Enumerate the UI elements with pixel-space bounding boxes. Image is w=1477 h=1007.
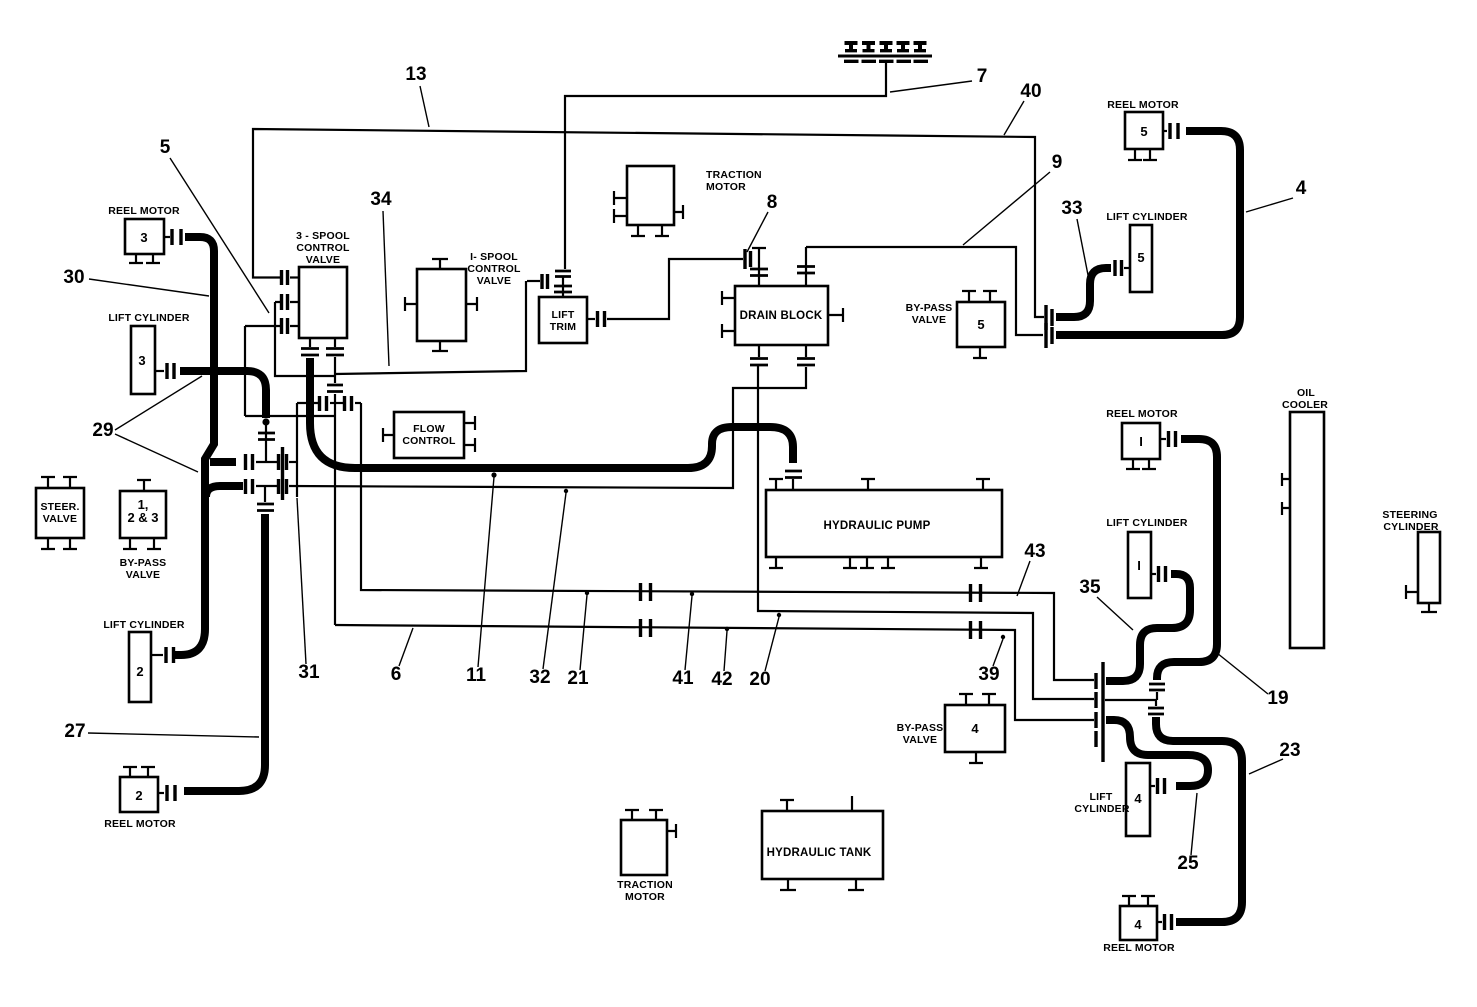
hose lift cylinder 3 to junction bbox=[180, 371, 275, 462]
svg-text:13: 13 bbox=[405, 64, 426, 85]
svg-text:LIFT CYLINDER: LIFT CYLINDER bbox=[1106, 517, 1188, 529]
coupling pair lower bbox=[1046, 323, 1052, 348]
svg-text:4: 4 bbox=[971, 721, 979, 736]
svg-text:2: 2 bbox=[136, 664, 143, 679]
svg-text:TRACTION: TRACTION bbox=[706, 169, 762, 181]
svg-text:9: 9 bbox=[1052, 152, 1063, 173]
svg-text:FLOW: FLOW bbox=[413, 423, 445, 435]
svg-text:19: 19 bbox=[1267, 688, 1288, 709]
svg-text:4: 4 bbox=[1134, 791, 1142, 806]
1-spool control valve bbox=[405, 251, 521, 351]
vent reservoir symbol bbox=[838, 43, 932, 61]
svg-text:32: 32 bbox=[529, 667, 550, 688]
label 40 bbox=[1004, 81, 1042, 135]
svg-text:5: 5 bbox=[1137, 250, 1144, 265]
label 7 bbox=[890, 66, 987, 92]
by-pass valve 5 bbox=[906, 291, 1005, 358]
svg-text:TRIM: TRIM bbox=[550, 321, 577, 333]
label 32 bbox=[529, 489, 568, 688]
label 19 bbox=[1217, 653, 1289, 709]
label 4 bbox=[1246, 178, 1307, 212]
coupling row under valve bbox=[297, 396, 361, 411]
svg-text:REEL MOTOR: REEL MOTOR bbox=[1106, 408, 1178, 420]
oil cooler bbox=[1282, 387, 1328, 648]
wire vent to lift trim bbox=[565, 62, 886, 269]
junction coupling row 1 bbox=[210, 447, 297, 500]
label 31 bbox=[297, 498, 320, 683]
traction motor bottom bbox=[617, 810, 676, 903]
svg-text:LIFT CYLINDER: LIFT CYLINDER bbox=[108, 312, 190, 324]
svg-text:MOTOR: MOTOR bbox=[706, 181, 746, 193]
svg-text:BY-PASS: BY-PASS bbox=[120, 557, 167, 569]
hose reel motor 3 to lift cylinder 2 bbox=[174, 237, 214, 655]
3-spool control valve bbox=[245, 230, 350, 355]
wire drain block to coupling 9 bbox=[806, 247, 1043, 335]
wire 13 long loop bbox=[253, 129, 1044, 317]
wire L1 from row to manifold row A bbox=[361, 403, 1094, 680]
svg-text:2: 2 bbox=[135, 788, 142, 803]
svg-text:41: 41 bbox=[672, 668, 694, 689]
svg-text:BY-PASS: BY-PASS bbox=[897, 722, 944, 734]
label 41 bbox=[672, 592, 694, 689]
label 13 bbox=[405, 64, 429, 127]
svg-text:30: 30 bbox=[63, 267, 84, 288]
label 35 bbox=[1079, 577, 1133, 630]
svg-text:43: 43 bbox=[1024, 541, 1045, 562]
svg-text:STEER.: STEER. bbox=[40, 501, 79, 513]
svg-text:3: 3 bbox=[140, 230, 147, 245]
svg-text:31: 31 bbox=[298, 662, 320, 683]
svg-text:REEL MOTOR: REEL MOTOR bbox=[104, 818, 176, 830]
label 39 bbox=[978, 635, 1005, 685]
row A hose stub bbox=[1106, 677, 1112, 685]
label 30 bbox=[63, 267, 209, 296]
label 8 bbox=[747, 192, 777, 252]
lift cylinder 4 bbox=[1074, 763, 1164, 836]
svg-text:REEL MOTOR: REEL MOTOR bbox=[1107, 99, 1179, 111]
svg-text:HYDRAULIC PUMP: HYDRAULIC PUMP bbox=[824, 520, 931, 532]
svg-text:39: 39 bbox=[978, 664, 999, 685]
svg-text:6: 6 bbox=[391, 664, 402, 685]
hose 4 loop to reel motor 5 bbox=[1056, 131, 1240, 335]
reel motor 4 bbox=[1103, 896, 1175, 954]
hydraulic pump bbox=[766, 479, 1002, 568]
svg-text:CYLINDER: CYLINDER bbox=[1074, 803, 1129, 815]
label 21 bbox=[567, 591, 589, 689]
svg-text:3: 3 bbox=[138, 353, 145, 368]
label 29 bbox=[92, 376, 202, 472]
by-pass valve 1 2 and 3 bbox=[120, 480, 167, 581]
svg-text:2 & 3: 2 & 3 bbox=[127, 510, 158, 525]
svg-text:33: 33 bbox=[1061, 198, 1082, 219]
wires under 3-spool valve bbox=[245, 281, 526, 625]
reel motor 2 bbox=[104, 767, 176, 830]
svg-text:LIFT CYLINDER: LIFT CYLINDER bbox=[103, 619, 185, 631]
svg-text:COOLER: COOLER bbox=[1282, 399, 1328, 411]
hose 19 reel motor 1 to row B bbox=[1105, 439, 1217, 700]
svg-text:STEERING: STEERING bbox=[1382, 509, 1437, 521]
reel motor 3 bbox=[108, 205, 181, 263]
svg-text:40: 40 bbox=[1020, 81, 1041, 102]
hose 33 coupling to lift cylinder 5 bbox=[1056, 268, 1111, 317]
lift cylinder 3 bbox=[108, 312, 190, 394]
svg-text:OIL: OIL bbox=[1297, 387, 1315, 399]
hose 23 row B to reel motor 4 bbox=[1148, 700, 1242, 922]
svg-text:DRAIN BLOCK: DRAIN BLOCK bbox=[740, 310, 823, 322]
label 9 bbox=[963, 152, 1062, 245]
reel motor 1 bbox=[1106, 408, 1178, 469]
svg-text:3 - SPOOL: 3 - SPOOL bbox=[296, 230, 350, 242]
label 25 bbox=[1177, 793, 1199, 874]
svg-text:REEL MOTOR: REEL MOTOR bbox=[1103, 942, 1175, 954]
svg-text:CONTROL: CONTROL bbox=[402, 435, 456, 447]
wire L3 to manifold row C bbox=[335, 619, 1094, 720]
label 23 bbox=[1249, 740, 1301, 774]
lift trim valve bbox=[527, 271, 605, 343]
svg-text:LIFT CYLINDER: LIFT CYLINDER bbox=[1106, 211, 1188, 223]
svg-text:29: 29 bbox=[92, 420, 113, 441]
lift cylinder 1 bbox=[1106, 517, 1188, 598]
node riser x297 bbox=[296, 403, 298, 497]
svg-text:LIFT: LIFT bbox=[552, 309, 575, 321]
drain block bbox=[722, 247, 843, 365]
reel motor 5 bbox=[1107, 99, 1179, 160]
svg-text:HYDRAULIC TANK: HYDRAULIC TANK bbox=[767, 847, 872, 859]
svg-text:VALVE: VALVE bbox=[43, 513, 77, 525]
wire L2 drain to manifold row B bbox=[758, 366, 1094, 699]
svg-text:VALVE: VALVE bbox=[477, 275, 511, 287]
svg-text:35: 35 bbox=[1079, 577, 1101, 598]
label 34 bbox=[370, 189, 392, 366]
svg-text:I- SPOOL: I- SPOOL bbox=[470, 251, 518, 263]
by-pass valve 4 bbox=[897, 694, 1005, 763]
svg-text:REEL MOTOR: REEL MOTOR bbox=[108, 205, 180, 217]
svg-text:25: 25 bbox=[1177, 853, 1199, 874]
svg-text:8: 8 bbox=[767, 192, 778, 213]
main pressure hose valve to pump bbox=[310, 358, 793, 468]
coupling pair upper bbox=[1046, 305, 1052, 330]
svg-text:TRACTION: TRACTION bbox=[617, 879, 673, 891]
svg-text:34: 34 bbox=[370, 189, 392, 210]
hose 25 row C to lift cylinder 4 bbox=[1106, 720, 1208, 786]
svg-text:11: 11 bbox=[466, 665, 487, 686]
label 20 bbox=[749, 613, 781, 690]
steer valve bbox=[36, 477, 84, 549]
svg-text:BY-PASS: BY-PASS bbox=[906, 302, 953, 314]
label 27 bbox=[64, 721, 259, 742]
svg-text:4: 4 bbox=[1296, 178, 1307, 199]
svg-text:I: I bbox=[1137, 558, 1141, 573]
svg-text:4: 4 bbox=[1134, 917, 1142, 932]
svg-text:42: 42 bbox=[711, 669, 732, 690]
svg-text:20: 20 bbox=[749, 669, 770, 690]
lift cylinder 5 bbox=[1106, 211, 1188, 292]
svg-text:MOTOR: MOTOR bbox=[625, 891, 665, 903]
junction coupling row 2 bbox=[206, 479, 287, 497]
svg-text:5: 5 bbox=[160, 137, 171, 158]
svg-text:CONTROL: CONTROL bbox=[296, 242, 350, 254]
svg-text:VALVE: VALVE bbox=[903, 734, 937, 746]
label 33 bbox=[1061, 198, 1088, 275]
wire row2 to drain block bbox=[289, 367, 806, 488]
svg-text:I: I bbox=[1139, 434, 1143, 449]
svg-text:7: 7 bbox=[977, 66, 988, 87]
flow control bbox=[383, 412, 475, 458]
svg-text:5: 5 bbox=[1140, 124, 1147, 139]
steering cylinder bbox=[1382, 509, 1440, 612]
svg-text:VALVE: VALVE bbox=[912, 314, 946, 326]
svg-text:27: 27 bbox=[64, 721, 85, 742]
svg-text:5: 5 bbox=[977, 317, 984, 332]
svg-text:21: 21 bbox=[567, 668, 589, 689]
manifold couplings bbox=[1096, 662, 1103, 762]
wire lift trim to drain block bbox=[607, 249, 751, 319]
label 5 bbox=[160, 137, 269, 313]
svg-text:CONTROL: CONTROL bbox=[467, 263, 521, 275]
label 43 bbox=[1017, 541, 1046, 596]
label 11 bbox=[466, 472, 497, 686]
pump inlet cap bbox=[785, 471, 802, 490]
hydraulic tank bbox=[762, 796, 883, 890]
hose 35 lift cylinder 1 to row A bbox=[1109, 574, 1190, 681]
svg-text:VALVE: VALVE bbox=[306, 254, 340, 266]
hose 27 junction to reel motor 2 bbox=[184, 486, 274, 791]
traction motor top bbox=[614, 166, 762, 236]
label 6 bbox=[391, 628, 413, 685]
lift cylinder 2 bbox=[103, 619, 185, 702]
svg-text:23: 23 bbox=[1279, 740, 1300, 761]
svg-text:LIFT: LIFT bbox=[1090, 791, 1113, 803]
svg-text:VALVE: VALVE bbox=[126, 569, 160, 581]
label 42 bbox=[711, 627, 732, 690]
